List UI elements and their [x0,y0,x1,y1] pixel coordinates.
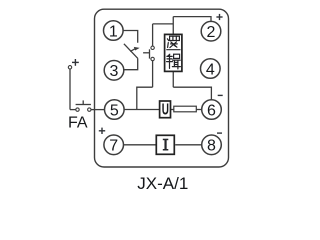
svg-text:7: 7 [109,138,118,155]
svg-text:FA: FA [68,115,88,132]
svg-text:5: 5 [110,102,119,119]
svg-text:4: 4 [206,61,215,78]
svg-text:3: 3 [110,63,119,80]
svg-text:6: 6 [207,102,216,119]
svg-text:2: 2 [207,24,216,41]
svg-text:1: 1 [109,23,118,40]
svg-text:8: 8 [207,138,216,155]
svg-text:JX-A/1: JX-A/1 [137,174,188,193]
svg-text:U: U [162,101,169,118]
